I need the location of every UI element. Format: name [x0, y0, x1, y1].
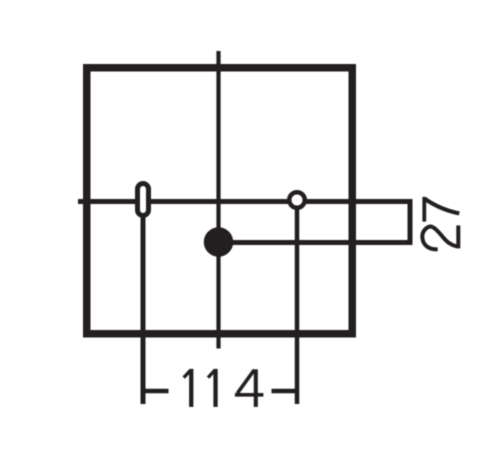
- dimension label 27 (rotated 90 CCW): digit 7: [424, 197, 459, 222]
- right extension line (from round hole): [295, 209, 300, 404]
- wiring hole (filled circle): [204, 227, 234, 257]
- dimension bracket vertical (27 dim): [408, 199, 413, 245]
- vertical centerline: [216, 51, 220, 349]
- slotted mounting hole (left): [138, 184, 149, 216]
- right dimension tick: [272, 389, 298, 394]
- mounting plate outline (square): [87, 68, 353, 334]
- left dimension tick: [143, 389, 169, 394]
- horizontal line B (through wiring hole): [219, 240, 412, 245]
- dimension label 27 (rotated 90 CCW): digit 2: [422, 225, 458, 249]
- round mounting hole (right): [289, 192, 305, 208]
- dimension label 114: digit 1 (first): [184, 369, 192, 407]
- dimension label 114: digit 1 (second): [208, 369, 216, 407]
- left extension line (from slot): [141, 217, 146, 404]
- dimension label 114: digit 4: [235, 369, 264, 407]
- horizontal centerline A (through holes): [78, 199, 412, 204]
